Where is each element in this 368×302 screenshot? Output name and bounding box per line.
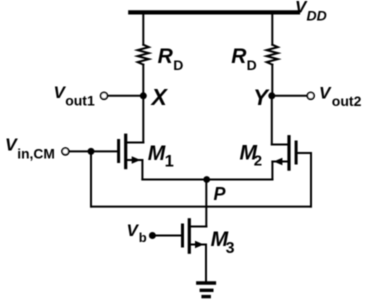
node P xyxy=(203,176,210,183)
label M1 xyxy=(148,142,174,171)
svg-text:M: M xyxy=(148,142,166,165)
label P xyxy=(214,184,227,204)
label Vin,CM xyxy=(5,135,55,162)
label Y xyxy=(253,85,270,110)
label M3 xyxy=(211,228,235,257)
svg-text:in,CM: in,CM xyxy=(17,146,55,161)
label Vb xyxy=(127,221,147,245)
svg-text:b: b xyxy=(139,230,147,245)
wire node Y to M2 drain xyxy=(271,96,273,145)
svg-text:V: V xyxy=(5,135,18,155)
svg-text:1: 1 xyxy=(165,153,174,171)
transistor M1 xyxy=(119,135,144,167)
wire Vb to M3 gate xyxy=(152,235,181,237)
power rail VDD xyxy=(130,10,298,14)
wire resistor to node X xyxy=(142,65,144,96)
wire node X to M1 drain xyxy=(142,96,144,143)
terminal Vin,CM xyxy=(62,148,69,155)
label M2 xyxy=(240,141,263,169)
svg-text:2: 2 xyxy=(254,153,262,170)
wire bottom feed horizontal xyxy=(91,206,311,208)
terminal Vout1 xyxy=(101,92,108,99)
wire resistor to node Y xyxy=(271,65,273,96)
svg-text:D: D xyxy=(247,57,257,73)
transistor M3 xyxy=(183,220,207,252)
wire rail to right resistor RD xyxy=(271,13,273,45)
ground xyxy=(198,283,215,297)
svg-text:D: D xyxy=(173,57,183,73)
terminal Vb dot xyxy=(149,232,156,239)
svg-text:V: V xyxy=(319,84,332,103)
resistor RD right xyxy=(267,45,278,65)
svg-text:V: V xyxy=(127,221,140,240)
svg-text:R: R xyxy=(231,45,247,68)
wire M1 source to tail xyxy=(141,161,143,180)
wire node P to M3 drain xyxy=(205,180,207,227)
junction dot Vin,CM node xyxy=(88,148,95,155)
label X xyxy=(150,84,169,110)
svg-text:3: 3 xyxy=(226,240,235,257)
wire rail to left resistor RD xyxy=(142,13,144,45)
wire Vin,CM node down to bottom feed xyxy=(90,151,92,206)
resistor RD left xyxy=(138,45,149,65)
wire Vout1 terminal to node X xyxy=(108,95,144,97)
label RD right xyxy=(231,45,256,73)
wire bottom feed up to M2 gate xyxy=(310,153,312,207)
terminal Vout2 xyxy=(307,92,314,99)
svg-text:Y: Y xyxy=(253,85,270,110)
wire M3 source to ground xyxy=(205,245,207,282)
label Vout1 xyxy=(54,83,95,109)
svg-text:X: X xyxy=(150,84,169,110)
wire node Y to Vout2 terminal xyxy=(272,95,307,97)
wire tail horizontal node P xyxy=(142,179,272,181)
svg-text:P: P xyxy=(214,184,227,204)
label Vout2 xyxy=(319,84,362,110)
label RD left xyxy=(158,45,184,73)
label VDD xyxy=(295,0,327,24)
svg-text:DD: DD xyxy=(307,8,327,24)
node X xyxy=(140,92,147,99)
svg-text:R: R xyxy=(158,45,174,68)
wire Vin,CM terminal to M1 gate xyxy=(69,150,117,152)
transistor M2 xyxy=(272,137,296,169)
wire M2 source to tail xyxy=(271,162,273,180)
svg-text:out2: out2 xyxy=(332,93,362,109)
node Y xyxy=(268,92,275,99)
wire to M2 gate bar xyxy=(298,152,312,154)
svg-text:out1: out1 xyxy=(65,93,95,109)
